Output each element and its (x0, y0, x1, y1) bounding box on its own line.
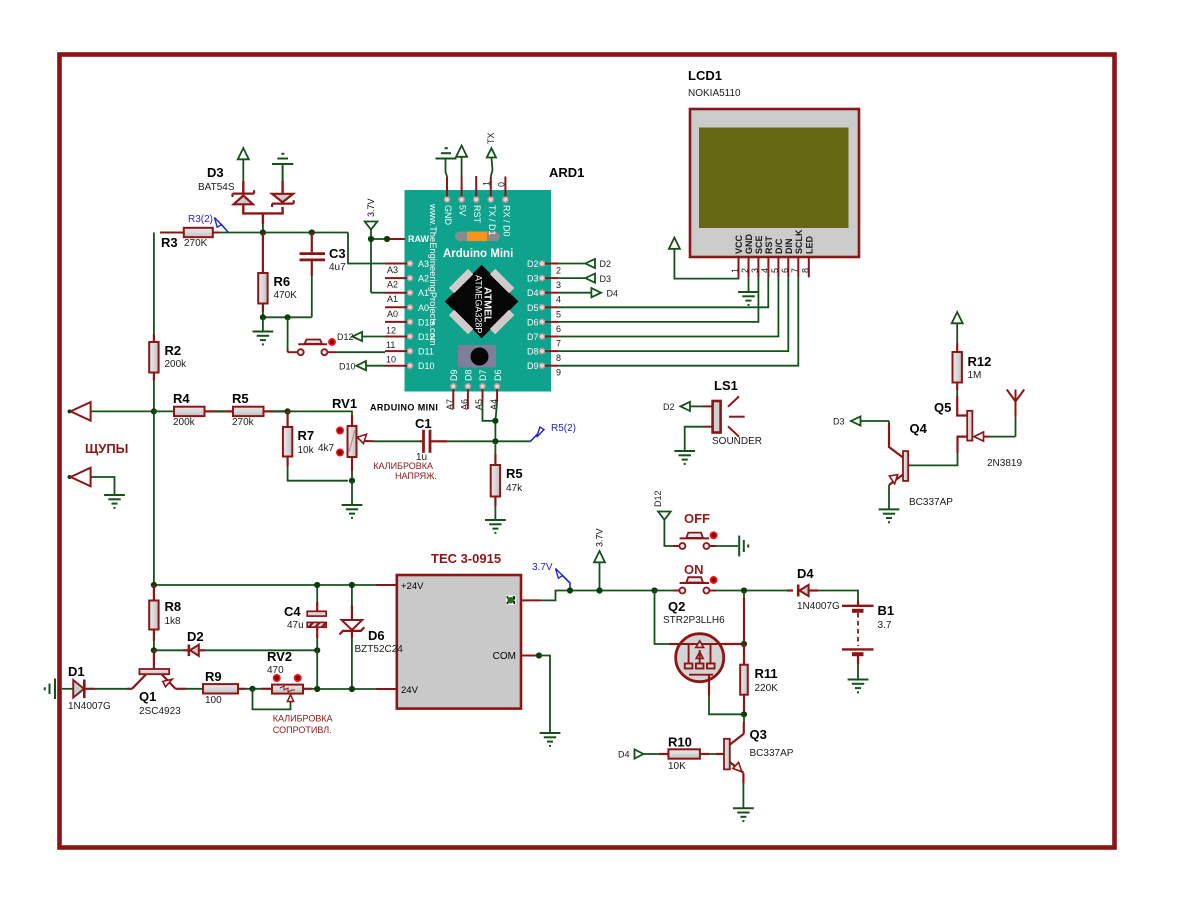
svg-text:RX / D0: RX / D0 (501, 205, 511, 237)
svg-text:ТЕС 3-0915: ТЕС 3-0915 (431, 551, 501, 566)
24V pin lead (376, 688, 397, 690)
wire D7 row to LCD pin5 (559, 277, 779, 336)
svg-text:NOKIA5110: NOKIA5110 (688, 88, 741, 99)
svg-text:НАПРЯЖ.: НАПРЯЖ. (395, 471, 437, 481)
right pin pads (539, 261, 545, 369)
potentiometer RV1 4k7 (337, 415, 374, 481)
ground symbol on GND pin (inverted) (436, 148, 457, 176)
svg-text:A1: A1 (418, 288, 429, 298)
transistor Q4 BC337AP (861, 421, 909, 509)
diode D6 BZT52C24 zener (340, 585, 365, 689)
svg-text:R8: R8 (165, 599, 182, 614)
lcd pin numbers (rotated) (730, 268, 811, 273)
bottom pin labels inside (rotated) (449, 369, 503, 381)
wire to RV1 top (288, 411, 352, 417)
svg-text:R6: R6 (274, 274, 291, 289)
bottom stubs A7..A4 (453, 389, 497, 409)
ground under RV1 (342, 481, 363, 518)
resistor R12 1M (953, 344, 962, 397)
node R9/RV2 wiper (249, 686, 255, 692)
svg-text:47u: 47u (287, 620, 304, 631)
chip U ATMEGA328P diamond (445, 265, 519, 338)
power symbol on 5V pin (456, 146, 467, 177)
crystal block (458, 345, 496, 368)
svg-text:RV1: RV1 (332, 396, 357, 411)
ground under Q4 (879, 509, 900, 522)
svg-text:SOUNDER: SOUNDER (712, 436, 762, 447)
svg-text:10k: 10k (298, 445, 315, 456)
svg-text:R3: R3 (161, 235, 178, 250)
resistor R5 47k (491, 441, 500, 520)
svg-text:1M: 1M (968, 370, 982, 381)
RAW wire + 3.7V power triangle (365, 198, 405, 292)
node C1/R5 (492, 438, 498, 444)
24V rail (317, 688, 376, 690)
node R8/D2/Q1 base (151, 647, 157, 653)
IN pin lead (521, 599, 541, 601)
svg-text:2SC4923: 2SC4923 (139, 706, 181, 717)
svg-text:SCLK: SCLK (794, 229, 804, 254)
svg-text:2: 2 (740, 268, 750, 273)
svg-text:6: 6 (780, 268, 790, 273)
diode D2 (183, 645, 317, 657)
svg-text:R5: R5 (506, 466, 523, 481)
svg-text:TX / D1: TX / D1 (487, 205, 497, 236)
svg-text:LS1: LS1 (714, 378, 738, 393)
svg-text:220K: 220K (755, 683, 779, 694)
svg-text:A2: A2 (387, 280, 398, 290)
top pin labels inside (rotated) (443, 205, 511, 237)
resistor R8 1k8 (149, 585, 158, 650)
resonator capsule (455, 232, 500, 242)
sideways ground for OFF (739, 536, 748, 557)
svg-text:C1: C1 (415, 416, 432, 431)
svg-text:9: 9 (556, 368, 561, 378)
COM pin lead (521, 652, 560, 746)
svg-text:D1: D1 (68, 664, 85, 679)
svg-text:4u7: 4u7 (329, 262, 346, 273)
wire D5 row to LCD pin4 (559, 277, 769, 307)
net label R3(2) (188, 214, 228, 232)
svg-text:D6: D6 (527, 317, 539, 327)
svg-text:2: 2 (556, 266, 561, 276)
op board ARD1 Arduino Mini (405, 190, 552, 392)
resistor R4 200k (154, 407, 233, 416)
capacitor C3 4u7 (300, 233, 326, 318)
svg-text:GND: GND (443, 205, 453, 226)
svg-text:GND: GND (744, 234, 754, 255)
svg-text:A3: A3 (387, 265, 398, 275)
wire gate drop (655, 591, 670, 645)
svg-text:5V: 5V (458, 205, 468, 216)
power symbol above R12 (952, 312, 963, 344)
pushbutton ON (655, 562, 748, 594)
svg-text:D13: D13 (418, 317, 435, 327)
svg-text:D7: D7 (527, 332, 539, 342)
terminal D12 (down) (653, 490, 679, 546)
svg-text:8: 8 (556, 353, 561, 363)
diode D4 1N4007G (747, 585, 858, 601)
svg-text:C3: C3 (329, 246, 346, 261)
svg-text:D3: D3 (527, 274, 539, 284)
svg-text:Q4: Q4 (910, 421, 928, 436)
svg-text:47k: 47k (506, 483, 523, 494)
svg-text:A7: A7 (445, 399, 455, 410)
ground at page edge for D1 (45, 679, 55, 700)
svg-text:TX: TX (486, 132, 496, 144)
svg-text:BAT54S: BAT54S (198, 182, 235, 193)
pushbutton OFF (679, 511, 738, 549)
svg-text:B1: B1 (878, 603, 895, 618)
resistor R3 270K (184, 228, 213, 237)
wire C4 bottom to 24V rail (316, 650, 318, 689)
svg-text:10: 10 (386, 355, 396, 365)
trunk wire down to +24V rail (153, 411, 155, 585)
svg-text:270k: 270k (232, 417, 255, 428)
wire drain drop (743, 591, 745, 645)
wire D8 row to LCD pin6 (559, 277, 789, 351)
svg-text:200k: 200k (165, 359, 188, 370)
svg-text:ATMEGA328P: ATMEGA328P (474, 275, 484, 333)
svg-text:BZT52C24: BZT52C24 (355, 644, 404, 655)
probe terminal 1 (68, 402, 154, 421)
node C4 bottom (314, 647, 320, 653)
svg-text:10K: 10K (668, 761, 686, 772)
resistor R6 470K (258, 233, 267, 318)
ground under R6 (253, 317, 274, 344)
top stubs: GND 5V RST TX RX (447, 176, 505, 197)
resistor R11 220K (740, 644, 748, 714)
svg-text:4k7: 4k7 (318, 443, 335, 454)
svg-text:R9: R9 (205, 669, 222, 684)
svg-text:C4: C4 (284, 604, 301, 619)
ground under R5 (485, 520, 506, 533)
svg-text:RST: RST (472, 205, 482, 224)
resistor R2 200k (149, 233, 158, 412)
node at C3 top (309, 229, 315, 235)
svg-text:D12: D12 (337, 332, 354, 342)
svg-text:0: 0 (497, 182, 507, 187)
svg-text:BC337AP: BC337AP (909, 497, 953, 508)
node R5/R7 (285, 408, 291, 414)
svg-text:3.7V: 3.7V (366, 198, 376, 217)
node C4 top (314, 582, 320, 588)
svg-text:5: 5 (556, 309, 561, 319)
node under R6 (260, 314, 266, 320)
terminal D10 (input arrow) (339, 361, 385, 371)
terminal D4 out (559, 288, 618, 298)
svg-text:RAW: RAW (408, 234, 430, 244)
svg-text:COM: COM (493, 651, 516, 662)
svg-text:A3: A3 (418, 259, 429, 269)
svg-text:A6: A6 (460, 399, 470, 410)
svg-text:6: 6 (556, 324, 561, 334)
transistor Q5 2N3819 (JFET) (908, 396, 1016, 465)
wire VCC to power (674, 248, 738, 279)
+24V rail wire (154, 584, 376, 586)
lcd screen (699, 128, 849, 229)
LS1 bottom lead to ground (674, 427, 712, 464)
svg-text:Arduino Mini: Arduino Mini (443, 248, 513, 260)
svg-text:270K: 270K (184, 238, 208, 249)
svg-text:1N4007G: 1N4007G (797, 601, 840, 612)
probe terminal 2 with ground (68, 468, 125, 508)
antenna (1007, 390, 1024, 437)
svg-text:1: 1 (481, 181, 491, 186)
svg-text:100: 100 (205, 695, 222, 706)
right pin stubs (545, 264, 559, 366)
potentiometer RV2 470 (253, 675, 318, 710)
svg-text:5: 5 (770, 268, 780, 273)
svg-text:A2: A2 (418, 274, 429, 284)
terminal D3 (833, 416, 861, 426)
right pin row labels inside (527, 259, 539, 371)
svg-text:D8: D8 (464, 369, 474, 381)
svg-text:D2: D2 (600, 259, 612, 269)
resistor R5 270k (233, 407, 288, 416)
svg-text:LCD1: LCD1 (688, 68, 722, 83)
svg-text:LED: LED (804, 235, 814, 254)
svg-text:3.7V: 3.7V (532, 562, 553, 573)
outside labels left pins (386, 265, 398, 365)
svg-text:D2: D2 (663, 402, 675, 412)
diode D3 (dual schottky BAT54S) (233, 181, 294, 233)
svg-text:R12: R12 (968, 354, 992, 369)
svg-text:R10: R10 (668, 735, 692, 750)
svg-text:D/C: D/C (774, 238, 784, 254)
blue net label 3.7V (532, 562, 570, 591)
svg-text:D6: D6 (368, 628, 385, 643)
svg-text:D3: D3 (207, 165, 224, 180)
svg-text:D6: D6 (493, 369, 503, 381)
svg-text:КАЛИБРОВКА: КАЛИБРОВКА (373, 461, 433, 471)
svg-text:A0: A0 (418, 303, 429, 313)
svg-text:D8: D8 (527, 347, 539, 357)
terminal TX arrow (486, 132, 496, 176)
svg-text:Q1: Q1 (139, 689, 156, 704)
svg-text:D2: D2 (527, 259, 539, 269)
svg-text:R11: R11 (755, 666, 778, 681)
svg-text:R7: R7 (298, 428, 315, 443)
pushbutton to D12/D11 (288, 317, 385, 355)
left pin stubs (362, 264, 407, 366)
inverted ground symbol above D3 right diode (272, 154, 293, 182)
resistor R7 10k (283, 411, 348, 480)
LS1 top lead to D2 terminal (663, 402, 713, 412)
svg-text:7: 7 (556, 339, 561, 349)
wire to A3 (348, 233, 385, 264)
svg-text:D12: D12 (653, 490, 663, 507)
svg-text:D9: D9 (449, 369, 459, 381)
svg-text:D4: D4 (607, 288, 619, 298)
svg-text:ARDUINO MINI: ARDUINO MINI (370, 403, 438, 413)
node button riser (285, 314, 291, 320)
svg-text:VCC: VCC (734, 234, 744, 254)
svg-text:D3: D3 (833, 417, 845, 427)
terminal D12 (input arrow) (337, 332, 362, 342)
lcd pin stubs (739, 257, 809, 277)
svg-text:R5: R5 (232, 391, 249, 406)
top pin pads (444, 197, 508, 203)
svg-text:R2: R2 (165, 343, 182, 358)
terminal D3 out (559, 274, 611, 284)
svg-text:Q5: Q5 (934, 400, 951, 415)
left pin pads (407, 261, 413, 369)
svg-text:12: 12 (386, 326, 396, 336)
svg-text:11: 11 (386, 340, 395, 350)
wires A5/A4 down to C1 node (483, 402, 498, 441)
svg-text:D10: D10 (339, 362, 356, 372)
svg-text:D3: D3 (600, 274, 612, 284)
lcd pin labels (rotated) (734, 229, 815, 254)
battery B1 3.7 (842, 601, 874, 693)
svg-text:A0: A0 (387, 309, 398, 319)
transistor Q2 STR2P3LLH6 (P-MOSFET) (663, 599, 744, 714)
svg-text:D5: D5 (527, 303, 539, 313)
svg-text:3: 3 (556, 280, 561, 290)
transistor Q3 BC337AP (724, 714, 754, 821)
resistor R10 10K with D4 terminal (618, 749, 724, 759)
svg-text:D2: D2 (187, 629, 204, 644)
svg-text:24V: 24V (401, 685, 419, 696)
resistor R9 100 (203, 684, 262, 693)
power symbol above D3 left diode (238, 148, 249, 182)
svg-text:470: 470 (267, 665, 284, 676)
wire under R6/C3 (263, 316, 312, 318)
power symbol LCD VCC (669, 238, 680, 249)
svg-text:DIN: DIN (784, 239, 794, 255)
svg-text:1N4007G: 1N4007G (68, 701, 111, 712)
node at D3 stem (260, 229, 266, 235)
svg-text:R4: R4 (173, 391, 190, 406)
svg-text:КАЛИБРОВКА: КАЛИБРОВКА (273, 714, 333, 724)
svg-text:+24V: +24V (401, 581, 424, 592)
svg-text:RST: RST (764, 235, 774, 254)
svg-text:470K: 470K (274, 290, 298, 301)
svg-text:1: 1 (730, 268, 740, 273)
net label R5(2) (531, 423, 577, 441)
capacitor C1 1u (374, 430, 531, 453)
svg-text:4: 4 (556, 295, 561, 305)
svg-text:2N3819: 2N3819 (987, 458, 1022, 469)
wire main top line (219, 232, 348, 234)
diode D1 1N4007G (62, 680, 127, 699)
capacitor C4 47u (307, 585, 327, 650)
svg-text:R5(2): R5(2) (551, 423, 576, 434)
svg-text:СОПРОТИВЛ.: СОПРОТИВЛ. (273, 725, 332, 735)
svg-text:D9: D9 (527, 361, 539, 371)
wire D2 line (154, 649, 183, 651)
svg-text:D4: D4 (797, 566, 814, 581)
svg-text:A1: A1 (387, 294, 398, 304)
svg-text:7: 7 (790, 268, 800, 273)
svg-text:D4: D4 (618, 750, 630, 760)
svg-text:BC337AP: BC337AP (750, 748, 794, 759)
svg-text:ARD1: ARD1 (549, 165, 584, 180)
svg-text:8: 8 (800, 268, 810, 273)
svg-text:Q3: Q3 (750, 727, 767, 742)
border frame (60, 55, 1115, 848)
node RV1 bottom (349, 478, 355, 484)
svg-text:3: 3 (750, 268, 760, 273)
node R4 trunk (151, 408, 157, 414)
svg-text:ON: ON (684, 562, 704, 577)
+24V pin lead (376, 584, 397, 586)
numbers on right stubs (556, 266, 561, 378)
power arrow 3.7V on rail (594, 528, 605, 590)
svg-text:200k: 200k (173, 417, 196, 428)
svg-text:RV2: RV2 (267, 649, 292, 664)
svg-text:3.7V: 3.7V (595, 528, 605, 547)
svg-text:4: 4 (760, 268, 770, 273)
svg-text:D7: D7 (478, 369, 488, 381)
wire D9 row to LCD pin7 (559, 277, 799, 365)
svg-text:1k8: 1k8 (165, 616, 182, 627)
outside labels bottom pins (rotated) (445, 399, 499, 410)
svg-text:SCE: SCE (754, 235, 764, 254)
svg-text:R3(2): R3(2) (188, 214, 213, 225)
svg-text:ЩУПЫ: ЩУПЫ (85, 441, 128, 456)
bottom pin pads (451, 384, 500, 390)
left pin row labels inside (408, 234, 435, 371)
svg-text:D4: D4 (527, 288, 539, 298)
svg-text:OFF: OFF (684, 511, 710, 526)
ground on LCD GND pin (738, 277, 759, 305)
svg-text:3.7: 3.7 (878, 620, 892, 631)
svg-text:D12: D12 (418, 332, 435, 342)
svg-text:STR2P3LLH6: STR2P3LLH6 (663, 615, 725, 626)
svg-text:D10: D10 (418, 361, 435, 371)
transistor Q1 2SC4923 (127, 650, 203, 689)
wire D6 row to LCD pin3 (559, 277, 759, 322)
terminal D2 out (559, 259, 611, 269)
svg-text:D11: D11 (418, 347, 434, 357)
svg-text:Q2: Q2 (668, 599, 685, 614)
